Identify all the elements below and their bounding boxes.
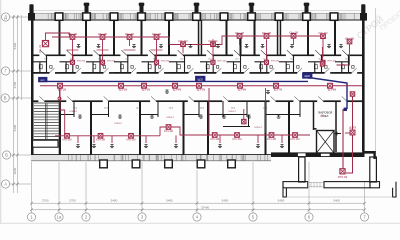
svg-text:ВРУ: ВРУ — [41, 80, 46, 82]
axis circle Б — [3, 151, 11, 159]
wire — [145, 135, 147, 143]
appliance symbol — [261, 45, 265, 48]
wire — [55, 135, 160, 137]
stair light — [58, 97, 61, 100]
bottom column — [228, 160, 236, 168]
junction box — [42, 41, 48, 47]
svg-text:ЩЭ-5М: ЩЭ-5М — [197, 89, 205, 92]
svg-text:5400: 5400 — [278, 199, 285, 203]
facade column — [83, 13, 91, 20]
wire — [182, 47, 184, 54]
room divider wall — [59, 20, 61, 55]
facade column — [55, 13, 63, 20]
room divider wall — [85, 20, 87, 55]
wire — [160, 127, 310, 136]
svg-text:ЭТВ-1Л: ЭТВ-1Л — [254, 127, 262, 129]
facade column — [193, 13, 201, 20]
wire — [219, 135, 221, 143]
junction box — [340, 169, 345, 174]
wire — [59, 88, 61, 98]
axis circle 1 — [27, 213, 35, 221]
room divider wall — [226, 20, 228, 55]
svg-text:2700: 2700 — [42, 199, 49, 203]
svg-text:ЩЭ-4М: ЩЭ-4М — [173, 89, 181, 92]
wire — [337, 44, 350, 65]
axis circle 1а — [55, 213, 63, 221]
bathroom fixtures — [39, 65, 354, 69]
junction box — [129, 134, 134, 139]
facade column — [110, 13, 118, 20]
wire — [212, 39, 214, 66]
junction box — [58, 83, 63, 88]
axis circle 2 — [82, 213, 90, 221]
wire — [170, 37, 219, 45]
axis circle А — [2, 180, 10, 188]
svg-text:ЩЭ-2М: ЩЭ-2М — [119, 89, 127, 92]
svg-text:1а: 1а — [57, 215, 62, 220]
junction box — [242, 119, 246, 123]
corner pilaster right — [360, 4, 367, 20]
axis circle 4 — [193, 213, 201, 221]
scan edge bottom — [0, 222, 400, 224]
wire — [322, 39, 324, 58]
junction box — [211, 42, 216, 47]
svg-text:КУп-1М: КУп-1М — [262, 31, 271, 35]
svg-text:ЩЭ-6М: ЩЭ-6М — [238, 89, 246, 92]
corridor north wall — [33, 72, 362, 74]
wire — [243, 109, 245, 119]
room divider wall — [307, 20, 309, 55]
svg-text:ЩУРЭ: ЩУРЭ — [349, 127, 356, 130]
blue junction — [344, 108, 347, 111]
lower room divider wall — [265, 101, 267, 155]
facade pilaster stem — [84, 3, 90, 14]
svg-text:ЭТВ-1Л: ЭТВ-1Л — [114, 123, 122, 125]
appliance symbol — [339, 45, 343, 48]
junction box — [328, 83, 333, 88]
svg-text:КУп-1М: КУп-1М — [291, 137, 300, 141]
junction box — [100, 35, 105, 40]
wire — [175, 135, 177, 143]
appliance symbol — [97, 45, 101, 48]
svg-text:КУп-1М: КУп-1М — [96, 138, 105, 142]
stair landing — [33, 140, 58, 147]
wire — [293, 38, 295, 45]
junction box — [269, 133, 274, 138]
wire — [124, 49, 136, 51]
facade column — [248, 13, 256, 20]
svg-text:КУп-1М: КУп-1М — [125, 32, 134, 36]
wire — [40, 85, 362, 87]
wire — [239, 38, 241, 45]
appliance symbol — [327, 45, 331, 48]
svg-text:КУп-1М: КУп-1М — [210, 137, 219, 141]
junction box — [212, 133, 217, 138]
facade column — [330, 13, 338, 20]
facade pilaster stem — [194, 3, 200, 14]
wire — [266, 39, 268, 66]
wire — [111, 135, 113, 143]
svg-text:ЯТП-1М: ЯТП-1М — [327, 61, 335, 63]
junction box — [235, 133, 240, 138]
facade column — [165, 13, 173, 20]
lower room divider wall — [288, 101, 290, 155]
wire — [257, 135, 259, 143]
appliance symbol — [150, 115, 154, 118]
junction box — [119, 83, 124, 88]
svg-text:КУп-1М: КУп-1М — [68, 32, 77, 36]
wire — [60, 88, 65, 134]
porch column left — [299, 157, 305, 182]
junction box — [71, 60, 75, 64]
wire — [151, 49, 163, 51]
axis circle 6 — [305, 213, 313, 221]
bottom wall right section — [271, 152, 365, 157]
staircase walls — [59, 101, 61, 155]
appliance symbol — [247, 115, 251, 118]
wire — [129, 39, 131, 46]
wire — [346, 97, 353, 174]
room divider wall — [113, 20, 115, 55]
junction box — [320, 62, 324, 66]
axis circle 5 — [249, 213, 257, 221]
appliance symbol — [77, 45, 81, 48]
appliance symbol — [132, 45, 136, 48]
junction box — [274, 83, 279, 88]
appliance symbol — [78, 115, 82, 118]
svg-text:ЩЭ-8М: ЩЭ-8М — [328, 89, 336, 92]
panel ShchO-3 — [196, 76, 206, 81]
svg-text:ЯТП-1М: ЯТП-1М — [338, 176, 347, 179]
room divider wall — [141, 20, 143, 55]
right exterior wall — [362, 20, 365, 151]
svg-text:КУп-1М: КУп-1М — [235, 31, 244, 35]
facade column — [220, 13, 228, 20]
upper balcony line — [34, 10, 362, 12]
svg-text:2700: 2700 — [69, 199, 76, 203]
facade pilaster stem — [139, 3, 145, 14]
svg-text:5400: 5400 — [111, 199, 118, 203]
svg-text:А: А — [4, 182, 7, 187]
junction box — [70, 35, 75, 40]
room divider wall — [168, 20, 170, 55]
junction box — [127, 35, 132, 40]
facade hatch — [48, 14, 354, 20]
axis circle Г — [2, 67, 10, 75]
wire — [345, 132, 350, 134]
junction box — [154, 35, 159, 40]
corridor north door swings — [49, 68, 356, 73]
bottom dimension lines — [32, 162, 365, 213]
bottom column — [197, 160, 205, 168]
junction box — [291, 34, 296, 39]
junction box — [155, 60, 159, 64]
svg-text:ЩЭ-3М: ЩЭ-3М — [142, 89, 150, 92]
appliance symbol — [256, 145, 260, 148]
svg-text:ЭТВ-1Л: ЭТВ-1Л — [69, 111, 77, 113]
appliance symbol — [218, 145, 222, 148]
appliance symbol — [159, 45, 163, 48]
junction box — [65, 134, 70, 139]
svg-text:КУп-1М: КУп-1М — [289, 31, 298, 35]
corridor south door swings — [39, 96, 346, 101]
axis circle 7 — [360, 213, 368, 221]
porch platform — [283, 182, 396, 197]
bottom wall opening 1 — [298, 153, 307, 157]
wire — [208, 88, 210, 135]
bottom column — [132, 160, 140, 168]
junction box — [264, 34, 269, 39]
wire — [52, 36, 170, 38]
svg-text:2860: 2860 — [13, 167, 17, 174]
wire — [72, 39, 74, 66]
appliance symbol — [110, 145, 114, 148]
lower room divider wall — [183, 101, 185, 155]
axis circle Д — [2, 13, 10, 21]
svg-text:5400: 5400 — [222, 199, 229, 203]
appliance symbol — [290, 45, 294, 48]
top rooms south wall — [33, 54, 362, 56]
svg-text:Б: Б — [5, 153, 8, 158]
facade column — [275, 13, 283, 20]
left dimension lines — [10, 15, 33, 193]
junction box — [237, 34, 242, 39]
lower room divider wall — [59, 101, 61, 155]
top facade wall band — [31, 13, 366, 20]
wire — [342, 109, 344, 169]
junction box — [166, 125, 171, 130]
bottom column — [165, 160, 173, 168]
right site line — [375, 8, 377, 152]
svg-text:КУп-1М: КУп-1М — [164, 129, 173, 133]
appliance symbol — [174, 145, 178, 148]
svg-text:ЭТВ-1Л: ЭТВ-1Л — [228, 111, 236, 113]
svg-text:32400: 32400 — [201, 206, 210, 210]
appliance symbol — [216, 45, 220, 48]
junction box — [142, 83, 147, 88]
corridor south wall — [33, 100, 362, 102]
appliance symbol — [199, 115, 203, 118]
wire — [102, 39, 104, 66]
svg-text:КУп-1М: КУп-1М — [267, 137, 276, 141]
svg-text:КУп-1М: КУп-1М — [319, 31, 328, 35]
appliance symbol — [76, 145, 80, 148]
svg-text:КУп-1М: КУп-1М — [233, 137, 242, 141]
svg-text:5400: 5400 — [13, 124, 17, 131]
appliance symbol — [277, 115, 281, 118]
svg-text:ЩО3: ЩО3 — [198, 79, 204, 81]
junction box — [181, 42, 186, 47]
arrow — [335, 132, 341, 135]
svg-text:ЯТП-1М: ЯТП-1М — [77, 61, 85, 63]
machine room wall — [314, 101, 337, 152]
svg-text:5400: 5400 — [166, 199, 173, 203]
facade column — [138, 13, 146, 20]
wire — [77, 135, 79, 143]
appliance symbol — [222, 115, 226, 118]
panel VRU — [39, 77, 48, 82]
svg-text:КУп-1М: КУп-1М — [152, 32, 161, 36]
junction box — [211, 60, 215, 64]
junction box — [350, 92, 354, 96]
appliance symbol — [165, 90, 169, 93]
left exterior wall — [31, 20, 34, 161]
lower room divider wall — [139, 101, 141, 155]
porch steps hatch — [308, 182, 324, 188]
facade column — [303, 13, 311, 20]
wire — [93, 135, 95, 143]
right wall lower step — [362, 151, 376, 159]
lower room divider wall — [207, 101, 209, 155]
junction box — [238, 83, 243, 88]
svg-text:5400: 5400 — [13, 42, 17, 49]
wire — [46, 33, 70, 41]
axis circle В — [1, 94, 9, 102]
left dimension ticks — [12, 16, 19, 186]
room divider wall — [334, 20, 336, 55]
scan edge left — [0, 0, 2, 224]
facade pilaster stem — [249, 3, 255, 14]
bottom column — [100, 160, 108, 168]
blue corridor feeder — [47, 80, 308, 82]
bottom wall opening 2 — [321, 153, 331, 157]
junction box — [197, 83, 202, 88]
appliance symbol — [144, 145, 148, 148]
appliance symbol — [245, 45, 249, 48]
appliance symbol — [92, 145, 96, 148]
partial wall — [240, 38, 242, 55]
svg-text:КУп-1М: КУп-1М — [127, 138, 136, 142]
svg-text:ЩЭ-7М: ЩЭ-7М — [274, 89, 282, 92]
svg-text:В: В — [4, 96, 7, 101]
junction box — [293, 133, 298, 138]
wire — [156, 39, 158, 66]
junction box — [101, 60, 105, 64]
svg-text:ЭТВ-1Л: ЭТВ-1Л — [166, 117, 174, 119]
room divider wall — [198, 20, 200, 55]
axis circle 3 — [138, 213, 146, 221]
bottom facade hatch — [69, 155, 268, 160]
junction box — [321, 60, 325, 64]
junction box — [173, 83, 178, 88]
appliance symbol — [189, 45, 193, 48]
wire — [265, 88, 267, 133]
appliance symbol — [118, 115, 122, 118]
blue feeder to right — [308, 78, 347, 109]
svg-text:ЩC: ЩC — [320, 116, 324, 118]
svg-text:КУп-1М: КУп-1М — [345, 36, 354, 40]
junction box — [98, 134, 103, 139]
facade pilaster stem — [304, 3, 310, 14]
corner pilaster left — [28, 4, 35, 20]
svg-text:КУп-1М: КУп-1М — [39, 45, 42, 53]
svg-text:ЯТП-1М: ЯТП-1М — [161, 61, 169, 63]
door swings top rooms — [40, 50, 347, 55]
lower room divider wall — [90, 101, 92, 155]
panel ShchO-2 — [303, 73, 313, 78]
svg-text:ЩЭ-1М: ЩЭ-1М — [58, 89, 66, 92]
porch column right / corner — [370, 157, 377, 182]
bottom dimension ticks — [30, 202, 366, 211]
svg-text:КУп-1М: КУп-1М — [179, 39, 188, 43]
svg-text:2700: 2700 — [13, 81, 17, 88]
svg-text:КУп-1М: КУп-1М — [98, 32, 107, 36]
room divider wall — [254, 20, 256, 55]
svg-text:КУп-1М: КУп-1М — [63, 138, 72, 142]
wire — [281, 135, 283, 143]
svg-text:Д: Д — [4, 15, 7, 20]
junction box — [347, 39, 352, 44]
staircase treads — [34, 103, 59, 146]
svg-text:ЯТП-1М: ЯТП-1М — [271, 61, 279, 63]
wire — [322, 47, 324, 62]
room divider wall — [277, 20, 279, 55]
bathroom partition walls — [33, 56, 348, 73]
bottom facade wall band — [31, 155, 271, 161]
lower partition stubs — [60, 101, 300, 127]
wire — [218, 36, 323, 45]
elevator shaft — [317, 131, 335, 154]
appliance symbol — [266, 91, 270, 94]
junction box — [350, 130, 355, 135]
svg-text:ЯТП-1М: ЯТП-1М — [217, 61, 225, 63]
junction box — [265, 60, 269, 64]
svg-text:5400: 5400 — [333, 199, 340, 203]
wire — [67, 49, 79, 51]
svg-text:ЯТП-1М: ЯТП-1М — [107, 61, 115, 63]
appliance symbol — [280, 145, 284, 148]
junction box — [321, 34, 326, 39]
wire — [97, 49, 109, 51]
